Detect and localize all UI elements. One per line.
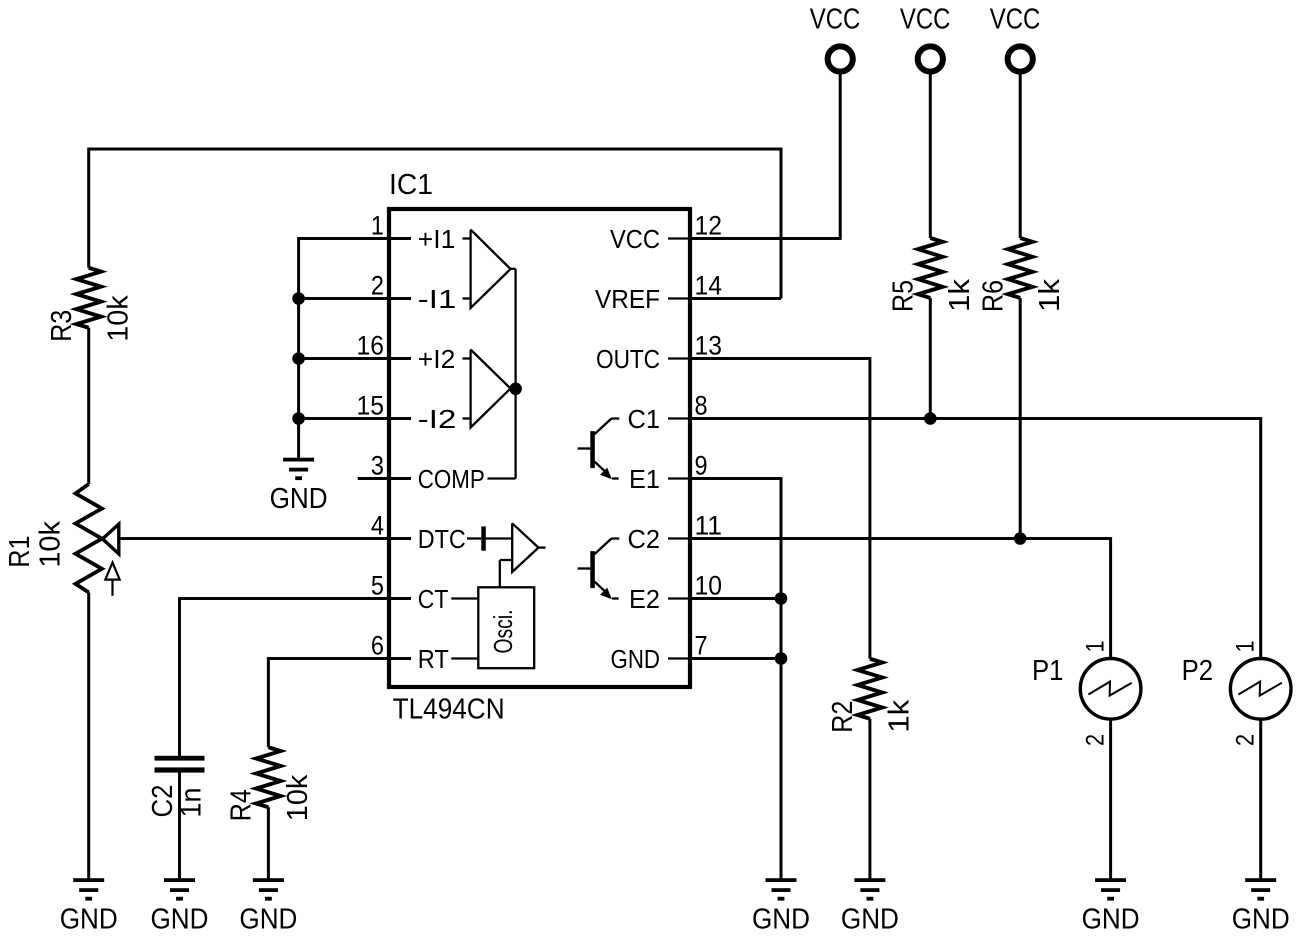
pin number 2: [371, 271, 384, 301]
ground GND (input bus): [270, 458, 328, 516]
svg-text:GND: GND: [752, 904, 810, 936]
potentiometer R1 10k: [4, 484, 120, 596]
resistor R2 1k: [827, 659, 916, 733]
svg-text:GND: GND: [1232, 904, 1290, 936]
wire C2 bottom lead: [178, 772, 181, 878]
svg-text:GND: GND: [270, 483, 328, 515]
wire R3 top lead: [87, 148, 90, 268]
svg-text:GND: GND: [60, 904, 118, 936]
pin number 5: [371, 571, 384, 601]
svg-text:C2: C2: [628, 524, 661, 554]
pin name VREF (right): [595, 284, 660, 314]
wire P2 bottom lead: [1259, 719, 1262, 878]
pin 8 internal stub: [668, 417, 690, 419]
pin name -I2: [418, 404, 457, 434]
pin number 2 (P2): [1231, 734, 1259, 746]
wire C2 net drop to P1: [1109, 537, 1112, 658]
oscillator Osci. block: [478, 587, 534, 668]
pin 11 internal stub: [668, 537, 690, 539]
svg-text:3: 3: [371, 451, 384, 481]
pin number 2 (P1): [1081, 734, 1109, 746]
svg-text:OUTC: OUTC: [596, 344, 660, 374]
wire pin 7 GND horizontal: [690, 657, 781, 660]
wire gnd bus vertical: [297, 237, 300, 458]
wire R2 bottom lead: [868, 719, 871, 879]
pin name CT: [418, 584, 449, 614]
transistor Q2 (C2/E2): [578, 539, 620, 600]
junction pin 7 on emitter bus: [775, 652, 788, 665]
label TL494CN: [393, 694, 505, 726]
svg-text:10k: 10k: [35, 521, 67, 568]
wire pin 8 C1 net horizontal: [690, 417, 1261, 420]
pin name E2 (right): [629, 584, 660, 614]
wire emitter bus vertical: [780, 477, 783, 878]
svg-text:VCC: VCC: [610, 224, 660, 254]
ground GND (R1): [60, 878, 118, 936]
supply VCC (left): [810, 3, 861, 71]
resistor R5 1k: [888, 238, 977, 312]
op-amp U1 box outline (IC1 TL494CN): [389, 209, 690, 687]
wire VREF vertical drop: [780, 148, 783, 299]
svg-text:1: 1: [371, 211, 384, 241]
svg-text:1: 1: [1231, 640, 1259, 652]
svg-text:C2: C2: [147, 785, 179, 818]
svg-text:TL494CN: TL494CN: [393, 694, 505, 726]
svg-text:1: 1: [1081, 640, 1109, 652]
wire R1 bottom lead: [87, 592, 90, 878]
pin name C1 (right): [628, 404, 661, 434]
svg-text:GND: GND: [151, 904, 209, 936]
svg-text:R4: R4: [226, 789, 258, 821]
svg-text:RT: RT: [418, 644, 449, 674]
ground GND (P1): [1082, 878, 1140, 936]
svg-text:DTC: DTC: [418, 524, 466, 554]
lamp P2: [1182, 655, 1291, 719]
svg-text:12: 12: [695, 211, 723, 241]
dead-time comparator input bar: [467, 526, 512, 550]
svg-text:6: 6: [371, 631, 384, 661]
svg-text:R1: R1: [4, 536, 36, 568]
pin number 1 (P2): [1231, 640, 1259, 652]
transistor Q1 (C1/E1): [578, 419, 620, 480]
svg-text:10: 10: [695, 571, 723, 601]
dtc buffer triangle: [512, 523, 545, 572]
svg-text:VREF: VREF: [595, 284, 660, 314]
wire R4 top lead: [267, 657, 270, 747]
pin 7 internal stub: [668, 657, 690, 659]
wire oscillator to dtc buffer: [500, 560, 513, 587]
svg-text:GND: GND: [239, 904, 297, 936]
svg-text:-I2: -I2: [418, 404, 457, 434]
wire pin 9 E1 horizontal: [690, 477, 781, 480]
pin 3 COMP stub: [358, 477, 411, 480]
pin number 14: [695, 271, 723, 301]
pin number 4: [371, 511, 384, 541]
pin 10 internal stub: [668, 597, 690, 599]
lamp P1: [1032, 655, 1141, 719]
wire VCC3 to R6: [1019, 75, 1022, 239]
svg-text:VCC: VCC: [900, 3, 951, 35]
svg-text:+I2: +I2: [418, 344, 456, 374]
junction bus pin 2: [292, 292, 305, 305]
wire pin 16 +I2 to gnd bus: [299, 357, 411, 360]
pin name DTC: [418, 524, 466, 554]
svg-text:2: 2: [1081, 734, 1109, 746]
pin number 6: [371, 631, 384, 661]
svg-text:E2: E2: [629, 584, 660, 614]
pin name C2 (right): [628, 524, 661, 554]
pin number 15: [357, 391, 385, 421]
wire R6 bottom to node C2: [1019, 298, 1022, 539]
wire pin 10 E2 horizontal: [690, 597, 781, 600]
svg-text:R3: R3: [46, 310, 78, 342]
pin name COMP: [418, 464, 485, 494]
pin 14 internal stub: [668, 297, 690, 299]
pin number 10: [695, 571, 723, 601]
svg-text:1k: 1k: [884, 699, 916, 733]
svg-text:2: 2: [371, 271, 384, 301]
svg-text:1k: 1k: [944, 278, 976, 312]
pin name GND (right): [611, 644, 661, 674]
comparator U1B triangle: [463, 350, 511, 428]
pin number 9: [695, 451, 708, 481]
svg-text:VCC: VCC: [810, 3, 861, 35]
resistor R6 1k: [977, 238, 1066, 312]
junction bus pin 16: [292, 352, 305, 365]
svg-text:7: 7: [695, 631, 708, 661]
pin name +I2: [418, 344, 456, 374]
junction comparator output node: [509, 383, 522, 396]
svg-text:VCC: VCC: [990, 3, 1041, 35]
resistor R4 10k: [226, 747, 315, 821]
pin 12 internal stub: [668, 237, 690, 239]
wire pin 13 OUTC horizontal: [690, 357, 870, 360]
svg-text:IC1: IC1: [389, 169, 433, 201]
wire pin 1 +I1 to gnd bus: [299, 237, 411, 240]
supply VCC (middle): [900, 3, 951, 71]
comparator U1A triangle: [463, 230, 511, 308]
svg-text:2: 2: [1231, 734, 1259, 746]
svg-text:GND: GND: [1082, 904, 1140, 936]
ground GND (P2): [1232, 878, 1290, 936]
svg-text:8: 8: [695, 391, 708, 421]
svg-text:C1: C1: [628, 404, 661, 434]
pin number 13: [695, 331, 723, 361]
svg-text:11: 11: [695, 511, 723, 541]
svg-text:P2: P2: [1182, 655, 1214, 687]
pin number 16: [357, 331, 385, 361]
svg-text:GND: GND: [841, 904, 899, 936]
wire comparator outputs to COMP: [488, 269, 516, 479]
svg-text:Osci.: Osci.: [488, 610, 518, 654]
wire P1 bottom lead: [1109, 719, 1112, 878]
pin name VCC (right): [610, 224, 660, 254]
wire OUTC to R2: [868, 357, 871, 659]
wire pin 11 C2 net horizontal: [690, 537, 1111, 540]
svg-text:+I1: +I1: [418, 224, 456, 254]
svg-text:10k: 10k: [103, 295, 135, 342]
pin number 1 (P1): [1081, 640, 1109, 652]
svg-text:13: 13: [695, 331, 723, 361]
svg-text:4: 4: [371, 511, 384, 541]
svg-text:R2: R2: [827, 701, 859, 733]
svg-text:P1: P1: [1032, 655, 1064, 687]
wire pin 14 VREF to rail: [690, 297, 781, 300]
junction R5 on C1 net: [924, 412, 937, 425]
wire R3-R1 link: [87, 328, 90, 484]
supply VCC (right): [990, 3, 1041, 71]
wire C2 top lead: [178, 597, 181, 756]
wire pin 5 CT horizontal: [180, 597, 412, 600]
pin number 11: [695, 511, 723, 541]
svg-text:10k: 10k: [282, 774, 314, 821]
pin number 3: [371, 451, 384, 481]
wire R1 wiper to pin 4 DTC: [120, 537, 411, 540]
ground GND (R4): [239, 878, 297, 936]
wire CT to oscillator: [451, 597, 478, 599]
wire R4 bottom lead: [267, 807, 270, 878]
svg-text:R6: R6: [977, 280, 1009, 312]
wire C1 net drop to P2: [1259, 417, 1262, 658]
wire VCC2 to R5: [929, 75, 932, 239]
pin number 1: [371, 211, 384, 241]
pin name -I1: [418, 284, 457, 314]
svg-text:GND: GND: [611, 644, 661, 674]
pin number 12: [695, 211, 723, 241]
svg-text:9: 9: [695, 451, 708, 481]
svg-text:1k: 1k: [1034, 278, 1066, 312]
svg-text:CT: CT: [418, 584, 449, 614]
ground GND (C2): [151, 878, 209, 936]
pin 9 internal stub: [668, 477, 690, 479]
pin 13 internal stub: [668, 357, 690, 359]
pin name E1 (right): [629, 464, 660, 494]
wire pin 12 VCC to supply: [690, 237, 840, 240]
wire RT to oscillator: [451, 657, 478, 659]
label IC1: [389, 169, 433, 201]
wire R5 bottom to node C1: [929, 298, 932, 419]
wire VCC1 vertical: [839, 75, 842, 240]
svg-text:R5: R5: [888, 280, 920, 312]
wire VREF top segment (R3 to VREF rail): [89, 148, 781, 151]
pin name OUTC (right): [596, 344, 660, 374]
svg-text:14: 14: [695, 271, 723, 301]
svg-text:1n: 1n: [176, 788, 208, 818]
pin name +I1: [418, 224, 456, 254]
ground GND (R2): [841, 878, 899, 936]
wire pin 6 RT horizontal: [268, 657, 411, 660]
junction R6 on C2 net: [1014, 532, 1027, 545]
wire pin 2 -I1 to gnd bus: [299, 297, 411, 300]
svg-text:E1: E1: [629, 464, 660, 494]
pin number 8: [695, 391, 708, 421]
svg-text:15: 15: [357, 391, 385, 421]
resistor R3 10k: [46, 268, 135, 342]
svg-text:-I1: -I1: [418, 284, 457, 314]
svg-text:COMP: COMP: [418, 464, 485, 494]
svg-text:16: 16: [357, 331, 385, 361]
pin number 7: [695, 631, 708, 661]
junction bus pin 15: [292, 412, 305, 425]
pin name RT: [418, 644, 449, 674]
wire pin 15 -I2 to gnd bus: [299, 417, 411, 420]
ground GND (emitters): [752, 878, 810, 936]
junction E2 on emitter bus: [775, 592, 788, 605]
svg-text:5: 5: [371, 571, 384, 601]
capacitor C2 1n: [147, 756, 208, 818]
